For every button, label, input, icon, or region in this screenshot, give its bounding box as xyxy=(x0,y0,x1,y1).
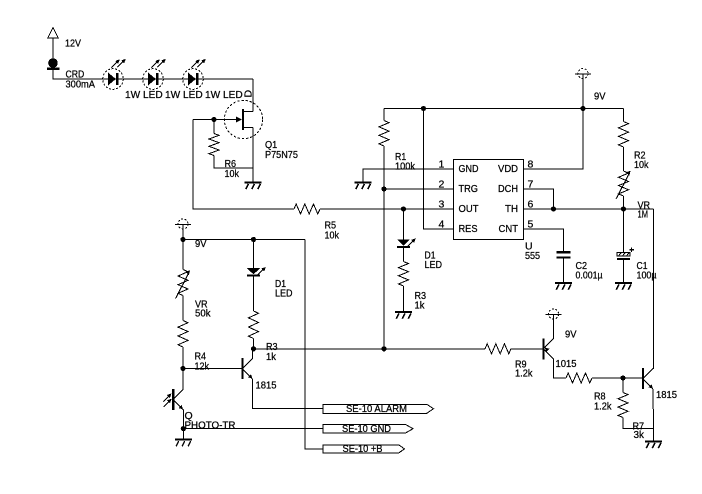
svg-text:1815: 1815 xyxy=(656,389,677,401)
svg-text:1k: 1k xyxy=(266,351,277,363)
wire Q1 gate xyxy=(193,119,236,121)
transistor Q3 1815 xyxy=(642,368,677,401)
node bus-TRG junction xyxy=(381,346,386,351)
ground C1 xyxy=(615,283,632,290)
wire OUT to D1 tap xyxy=(403,209,405,239)
svg-text:1M: 1M xyxy=(638,209,649,221)
wire 12V to CRD xyxy=(52,38,54,58)
resistor R4 12k xyxy=(178,321,210,373)
wire VR bottom to TH node xyxy=(623,196,625,209)
wire R6 bottom to source xyxy=(214,156,253,169)
wire Q4 emitter to 9V xyxy=(553,319,555,339)
node SE-10 GND flag xyxy=(323,423,413,435)
resistor R3 1k (timer) xyxy=(399,262,427,312)
wire R3 to collector node xyxy=(253,339,255,349)
node R1-TRG junction xyxy=(381,186,386,191)
wire photo-tr emitter to gnd node xyxy=(182,410,184,429)
wire C1 top lead xyxy=(623,209,625,253)
svg-text:10k: 10k xyxy=(225,168,240,180)
LED LED2 1W xyxy=(143,59,203,101)
op-amp U 555 timer IC body xyxy=(454,160,541,262)
svg-text:9V: 9V xyxy=(594,91,606,103)
wire trigger bus to R9 xyxy=(254,348,486,350)
svg-text:OUT: OUT xyxy=(459,203,480,215)
node SE-10 ALARM flag xyxy=(323,403,434,415)
svg-text:1k: 1k xyxy=(415,299,426,311)
svg-text:300mA: 300mA xyxy=(66,78,96,90)
svg-text:100k: 100k xyxy=(395,161,416,173)
wire R8 to base node xyxy=(592,377,642,379)
ground photo-tr xyxy=(175,440,192,447)
wire R1 bottom to TRG and trigger bus xyxy=(383,146,385,349)
svg-text:555: 555 xyxy=(525,250,540,262)
wire R4 to base node xyxy=(182,347,184,369)
wire base node to Q2 base xyxy=(183,368,242,370)
power symbol 9V top xyxy=(575,69,606,103)
wire photo-tr collector xyxy=(182,369,184,390)
svg-text:1W LED: 1W LED xyxy=(125,89,163,101)
svg-text:VDD: VDD xyxy=(498,163,518,175)
svg-text:2: 2 xyxy=(439,178,445,190)
wire VDD pin8 xyxy=(524,109,584,170)
wire D1 to R3 sensor xyxy=(253,277,255,311)
resistor R2 10k xyxy=(619,122,650,172)
wire C1 to ground xyxy=(623,260,625,282)
ground Q1 source xyxy=(245,183,262,190)
node base junction xyxy=(180,366,185,371)
resistor R7 3k xyxy=(618,393,645,442)
svg-text:DCH: DCH xyxy=(498,183,518,195)
node 9V-rail junction xyxy=(580,106,585,111)
resistor R8 1.2k xyxy=(566,373,612,412)
wire R2 to VR xyxy=(623,147,625,171)
wire rail to SE-10 +B xyxy=(305,240,323,449)
svg-text:10k: 10k xyxy=(634,159,649,171)
ground pin1 xyxy=(355,183,372,190)
resistor R5 10k xyxy=(294,204,340,241)
svg-text:9V: 9V xyxy=(565,329,577,341)
wire Q1 source to ground xyxy=(252,129,254,182)
wire TH corner to Q3 collector xyxy=(653,209,655,369)
svg-text:PHOTO-TR: PHOTO-TR xyxy=(185,419,236,431)
resistor R6 10k xyxy=(209,134,240,181)
wire Q3 emitter to ground xyxy=(652,389,654,441)
node collector junction xyxy=(251,346,256,351)
wire LED3 to drain corner xyxy=(252,79,254,111)
svg-text:12k: 12k xyxy=(195,360,210,372)
ground R3 xyxy=(395,312,412,319)
node DCH-TH junction xyxy=(551,206,556,211)
wire C2 to ground xyxy=(563,259,565,282)
wire D1 to R3 xyxy=(403,248,405,262)
wire 9V to sensor rail xyxy=(182,229,184,240)
svg-text:4: 4 xyxy=(439,218,445,230)
svg-text:0.001µ: 0.001µ xyxy=(576,269,603,281)
svg-text:SE-10 +B: SE-10 +B xyxy=(343,443,383,455)
svg-text:1015: 1015 xyxy=(556,358,577,370)
wire gate to R5 row xyxy=(193,120,294,210)
node R8-R7 junction xyxy=(620,375,625,380)
resistor R1 100k xyxy=(379,109,416,173)
wire 9V to rail xyxy=(582,79,584,109)
node rail-D1 junction xyxy=(251,237,256,242)
svg-text:CNT: CNT xyxy=(499,223,519,235)
svg-text:P75N75: P75N75 xyxy=(265,149,298,161)
node OUT-D1 junction xyxy=(401,206,406,211)
svg-text:1: 1 xyxy=(439,158,445,170)
svg-text:3: 3 xyxy=(439,198,445,210)
wire GND pin1 to ground xyxy=(363,169,454,182)
wire R7 top lead xyxy=(622,378,624,393)
transistor Q2 1815 xyxy=(241,358,276,391)
wire Q2 collector to node xyxy=(252,349,254,359)
power symbol 12V xyxy=(48,28,81,50)
wire R9 to Q4 base xyxy=(511,348,543,350)
LED LED1 1W xyxy=(103,59,163,101)
node emitter-gnd junction xyxy=(181,426,186,431)
wire TRG pin2 xyxy=(384,188,454,190)
svg-text:RES: RES xyxy=(459,223,478,235)
node 9V sensor junction xyxy=(180,237,185,242)
transistor Q PHOTO-TR xyxy=(163,389,236,431)
svg-text:1.2k: 1.2k xyxy=(594,400,612,412)
wire gnd node to SE-10 GND xyxy=(183,428,323,430)
capacitor C2 0.001u xyxy=(557,252,603,281)
svg-text:10k: 10k xyxy=(325,229,340,241)
svg-text:12V: 12V xyxy=(65,38,81,50)
wire R3 to ground xyxy=(403,286,405,311)
svg-text:SE-10 GND: SE-10 GND xyxy=(342,423,391,435)
svg-text:LED: LED xyxy=(425,259,443,271)
wire to ground xyxy=(182,429,184,439)
wire Q4 collector to R8 xyxy=(554,359,566,378)
svg-text:LED: LED xyxy=(275,287,293,299)
wire sensor 9V rail xyxy=(183,239,305,241)
wire RES pin4 to top rail xyxy=(424,109,454,230)
wire Q2 emitter to SE-10 ALARM xyxy=(253,379,323,409)
transistor Q1 P75N75 MOSFET xyxy=(224,90,298,162)
svg-text:TRG: TRG xyxy=(459,183,479,195)
wire R6 top lead xyxy=(213,120,215,134)
svg-text:100µ: 100µ xyxy=(637,269,657,281)
diode CRD 300mA xyxy=(47,58,95,90)
svg-text:1815: 1815 xyxy=(256,380,277,392)
LED D1 (sensor) xyxy=(247,240,293,300)
svg-text:1.2k: 1.2k xyxy=(515,368,533,380)
node TH-VR-C1 junction xyxy=(621,206,626,211)
power symbol 9V sensor xyxy=(175,219,207,250)
potentiometer VR 1M xyxy=(616,171,650,221)
node gate junction xyxy=(211,117,216,122)
node SE-10 +B flag xyxy=(323,443,405,455)
ground C2 xyxy=(555,283,572,290)
LED LED3 1W xyxy=(183,59,243,101)
wire VR50k to R4 xyxy=(182,296,184,321)
wire VDD top rail xyxy=(384,108,624,110)
svg-text:SE-10 ALARM: SE-10 ALARM xyxy=(346,403,407,415)
svg-text:3k: 3k xyxy=(634,429,645,441)
ground Q3 xyxy=(645,442,662,449)
svg-text:TH: TH xyxy=(505,203,518,215)
LED D1 (timer out) xyxy=(397,238,443,271)
wire R7 bottom to emitter xyxy=(623,418,654,429)
wire CRD to LED row xyxy=(53,70,253,79)
wire VR50k top lead xyxy=(182,240,184,270)
svg-text:D: D xyxy=(243,90,255,98)
svg-text:1W LED: 1W LED xyxy=(165,89,203,101)
wire TH pin6 xyxy=(524,208,654,210)
wire OUT pin3 to R5 xyxy=(320,208,454,210)
resistor R3 1k (sensor) xyxy=(249,311,278,363)
transistor Q4 1015 xyxy=(542,338,576,370)
svg-text:1W LED: 1W LED xyxy=(205,89,243,101)
power symbol 9V right xyxy=(546,309,577,341)
potentiometer VR 50k xyxy=(176,270,212,320)
svg-text:50k: 50k xyxy=(195,308,211,320)
svg-text:GND: GND xyxy=(459,163,479,175)
capacitor C1 100u electrolytic xyxy=(617,247,657,281)
node RES-rail junction xyxy=(421,106,426,111)
wire CNT pin5 to C2 xyxy=(524,229,564,251)
wire DCH pin7 xyxy=(524,189,554,209)
resistor R9 1.2k xyxy=(485,344,533,380)
wire R2 top lead xyxy=(623,109,625,122)
